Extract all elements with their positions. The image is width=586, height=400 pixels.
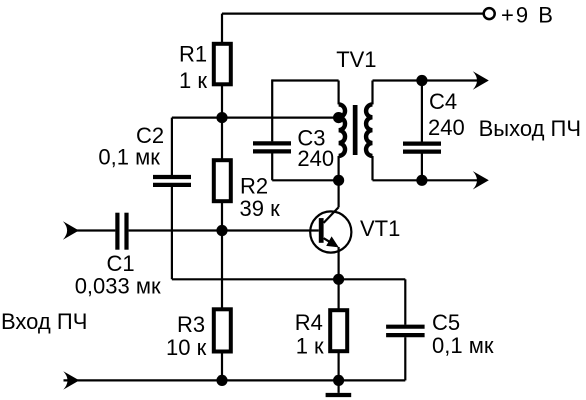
node ground junction dot: [333, 375, 344, 386]
svg-text:0,033 мк: 0,033 мк: [75, 274, 161, 299]
svg-text:1 к: 1 к: [179, 68, 207, 93]
capacitor C3: [253, 143, 291, 151]
svg-text:C4: C4: [429, 89, 457, 114]
node primary bottom junction dot: [333, 175, 344, 186]
wire C2 bottom lead: [171, 187, 173, 279]
input arrow bottom: [63, 371, 79, 389]
capacitor C1: [117, 213, 126, 250]
capacitor C5: [386, 327, 425, 335]
output arrow bottom: [473, 171, 489, 189]
transformer core: [353, 105, 358, 155]
node C4 bottom junction dot: [416, 175, 427, 186]
ground: [326, 380, 352, 395]
wire R4 bottom lead: [338, 351, 340, 380]
node R3 bottom junction dot: [216, 375, 227, 386]
wire node A horizontal to transformer tap: [172, 116, 339, 118]
svg-text:1 к: 1 к: [296, 334, 324, 359]
node A junction dot R1/R2/C2: [216, 112, 227, 123]
wire input to C1: [70, 229, 115, 231]
transistor VT1: [310, 207, 351, 252]
wire C5 top lead: [404, 279, 406, 324]
resistor R2: [214, 160, 231, 201]
capacitor C2: [153, 177, 191, 185]
wire emitter to C5: [339, 278, 406, 280]
capacitor C4: [403, 144, 441, 152]
resistor R3: [214, 309, 231, 351]
node base junction dot: [216, 225, 227, 236]
svg-text:Вход ПЧ: Вход ПЧ: [1, 309, 87, 334]
resistor R4: [330, 310, 347, 351]
wire C5 bottom lead: [404, 337, 406, 380]
node emitter junction dot: [333, 274, 344, 285]
svg-text:10 к: 10 к: [166, 335, 207, 360]
wire emitter to R4: [338, 279, 340, 310]
wire node A to R2 top: [221, 118, 223, 161]
svg-text:C5: C5: [432, 310, 460, 335]
wire C4 top lead: [421, 81, 423, 142]
wire R3 bottom lead: [221, 352, 223, 381]
wire C3 left bottom lead: [271, 154, 273, 181]
wire C4 bottom lead: [421, 154, 423, 181]
resistor R1: [214, 44, 231, 85]
svg-text:39 к: 39 к: [240, 196, 281, 221]
wire R1 top lead: [221, 14, 223, 43]
wire R1 bottom lead: [221, 84, 223, 117]
svg-text:R1: R1: [179, 41, 207, 66]
svg-text:R2: R2: [240, 174, 268, 199]
wire output bottom rail: [373, 179, 482, 181]
svg-text:0,1 мк: 0,1 мк: [98, 145, 160, 170]
node primary tap junction dot: [333, 112, 344, 123]
transformer TV1 primary winding: [339, 81, 345, 181]
output arrow top: [473, 71, 489, 89]
wire emitter vertical: [338, 247, 340, 279]
wire collector vertical: [338, 180, 340, 207]
svg-text:C1: C1: [107, 251, 135, 276]
svg-text:240: 240: [428, 115, 465, 140]
wire output top rail: [373, 79, 482, 81]
svg-text:240: 240: [297, 146, 334, 171]
wire C1 to base: [129, 229, 319, 231]
input arrow top: [63, 221, 79, 239]
svg-text:VT1: VT1: [360, 216, 400, 241]
wire bottom rail: [64, 379, 406, 381]
svg-text:+9 В: +9 В: [501, 2, 555, 27]
transformer TV1 secondary winding: [366, 81, 372, 181]
svg-text:0,1 мк: 0,1 мк: [432, 333, 494, 358]
wire C3 top rail: [272, 79, 338, 81]
wire C3 bottom rail: [272, 179, 338, 181]
svg-text:R3: R3: [177, 312, 205, 337]
wire C2 to emitter node: [172, 278, 339, 280]
wire R2 bottom through base node to R3 top: [221, 201, 223, 309]
wire C3 left top lead: [271, 79, 273, 141]
power terminal +9V open circle: [484, 8, 495, 19]
wire C2 top lead: [171, 118, 173, 176]
svg-text:Выход ПЧ: Выход ПЧ: [479, 116, 581, 141]
svg-text:R4: R4: [295, 310, 323, 335]
svg-text:TV1: TV1: [336, 47, 376, 72]
node C4 top junction dot: [416, 75, 427, 86]
wire +9V top rail: [222, 13, 483, 15]
